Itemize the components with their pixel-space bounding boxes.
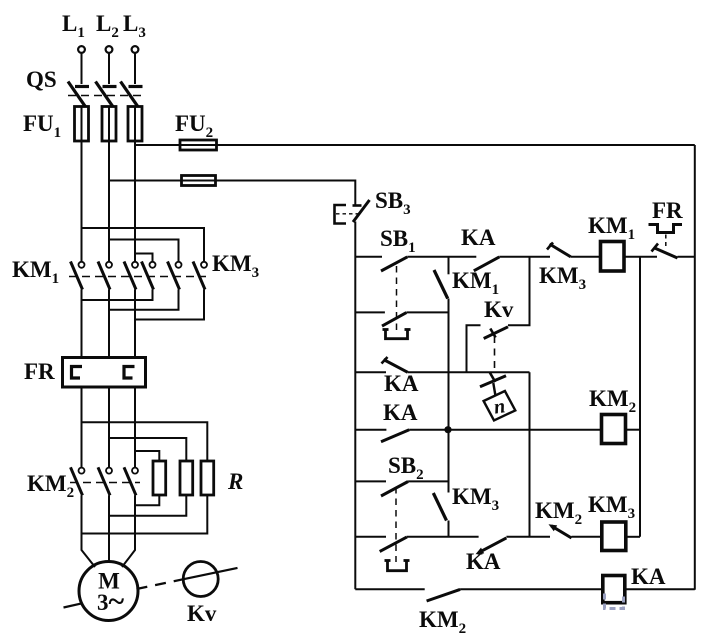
contactor KM2 contact 3 <box>124 467 138 495</box>
svg-text:KA: KA <box>383 400 418 425</box>
motor M circle <box>79 562 138 621</box>
row7 wire KM2 to KA coil <box>460 588 603 590</box>
pushbutton SB2 lower NO blade <box>380 537 407 552</box>
coil KM1 <box>601 242 625 272</box>
contactor KM1 aux NO blade vertical <box>434 270 448 299</box>
resistor R element 2 <box>180 461 193 495</box>
wire phase3 bank to FR <box>134 290 136 358</box>
contactor KM2 NC contact row6 with arrow <box>549 524 572 538</box>
resistor R element 1 <box>153 461 166 495</box>
wire KM3 contact2 bottom jumper to phase2 <box>109 290 179 310</box>
wire jumper L1 to KM3 right contact <box>82 228 205 262</box>
switch QS pole 3 <box>121 82 143 107</box>
wire KM3 contact3 bottom jumper to phase3 <box>135 290 204 320</box>
row1 wire FR to right rail <box>678 256 695 258</box>
pushbutton SB3 NC stop <box>353 200 370 222</box>
SB2 dashed link <box>395 487 397 562</box>
branch segment KM3 aux to row6 <box>448 521 450 537</box>
svg-text:Kv: Kv <box>484 297 514 322</box>
SB3 actuator dashed link <box>336 213 361 215</box>
Kv dashed link to n element <box>494 336 496 371</box>
pushbutton SB1 lower NO blade <box>382 313 406 327</box>
KM2 bank linkage dashed <box>70 482 140 484</box>
row5 wire SB2 to branch <box>408 480 448 482</box>
relay contact KA NO row4 blade <box>381 430 409 442</box>
contactor KM1 main contact 2 <box>98 262 112 290</box>
Kv right wire up to row1 <box>508 257 530 326</box>
wire R1 bottom to phase3 <box>135 495 159 505</box>
contactor KM3 NC contact row1 <box>547 243 571 257</box>
n element tilted box <box>484 391 516 420</box>
contactor KM1 main contact 3 <box>124 262 138 290</box>
svg-text:FR: FR <box>652 198 683 223</box>
wire phase2 bank to FR <box>108 290 110 358</box>
wire L2 drop to QS <box>108 53 110 84</box>
contactor KM3 aux NO blade vertical <box>433 493 446 521</box>
pushbutton SB2 NO blade <box>381 482 408 497</box>
row5 wire rail to SB2 <box>355 480 386 482</box>
wire tap phase1 to resistor R3 top <box>82 422 208 461</box>
wire phase3 fuse to KM bank <box>134 141 136 262</box>
thermal relay FR heater box <box>63 358 146 388</box>
relay contact KA NO row1 blade <box>474 257 500 271</box>
wire phase1 to motor <box>82 495 96 567</box>
scan artifact blue bracket under KA coil <box>605 594 624 609</box>
wire phase2 tap to FU2 lower <box>109 180 182 182</box>
speed relay Kv circle with shaft chord <box>183 562 237 597</box>
row1 wire rail to SB1 <box>355 256 382 258</box>
n element stem <box>493 383 495 396</box>
wire phase2 through FR down to KM2 bank <box>108 387 110 468</box>
SB1 dashed link <box>396 266 398 330</box>
wire phase1 bank to FR <box>81 290 83 358</box>
relay contact KA NO row6 blade with arrow <box>476 538 507 554</box>
wire phase1 fuse to KM bank <box>81 141 83 262</box>
Kv blade <box>484 327 508 339</box>
node L3 terminal <box>132 46 139 53</box>
row4 wire rail to KA <box>355 429 386 431</box>
row4 wire KA to KM2 coil <box>409 429 601 431</box>
coil KM2 <box>602 415 626 444</box>
svg-text:QS: QS <box>26 67 57 92</box>
SB1 button actuator U <box>383 330 411 339</box>
wire phase3 through FR down to KM2 bank <box>134 387 136 468</box>
wire jumper L2 to KM3 mid contact <box>109 240 179 262</box>
row2 wire to KM1 branch <box>406 311 448 313</box>
wire R2 bottom to phase2 <box>109 495 186 516</box>
wire phase3 to motor <box>122 495 135 567</box>
fuse FU2 upper <box>180 140 217 150</box>
svg-text:KA: KA <box>466 549 501 574</box>
junction dot row4 <box>444 426 451 433</box>
speed sensor contact blade above n <box>480 373 506 387</box>
FR heater element 2 <box>124 367 135 379</box>
SB2 button actuator U <box>385 561 410 571</box>
row3 wire KA to corner <box>408 371 530 373</box>
svg-text:KA: KA <box>631 564 666 589</box>
wire FU2 top to right rail <box>217 144 695 146</box>
KM1-KM3 bank linkage dashed <box>69 276 206 278</box>
contactor KM3 main contact 2 <box>168 262 182 290</box>
svg-text:KA: KA <box>461 225 496 250</box>
contactor KM1 main contact 1 <box>71 262 85 290</box>
QS linkage dashed <box>68 95 146 97</box>
wire phase2 fuse to KM bank <box>108 141 110 262</box>
row6 wire KM3 coil to return branch <box>626 536 640 538</box>
coil KA <box>603 576 625 603</box>
row1 wire KM1 coil to FR <box>624 256 657 258</box>
row7 wire KA coil to right rail <box>625 588 695 590</box>
left rail <box>354 222 356 590</box>
svg-text:KA: KA <box>384 371 419 396</box>
branch KM1 aux lower segment down to row6 <box>448 299 450 493</box>
wire tap phase2 to resistor R2 top <box>109 438 186 461</box>
shaft dashed coupling motor to Kv <box>137 579 184 589</box>
wire phase3 tap to FU2 top <box>135 144 180 146</box>
row1 wire SB1 to KA <box>407 256 476 258</box>
fuse FU1 pole 1 <box>75 107 89 142</box>
row3 wire rail to KA NC <box>355 371 386 373</box>
row7 wire rail to KM2 <box>355 588 424 590</box>
node L1 terminal <box>78 46 85 53</box>
wire phase1 through FR down to KM2 bank <box>81 387 83 468</box>
wire phase2 to motor <box>108 495 110 562</box>
branch KM1 aux upper segment <box>448 257 450 275</box>
wire jumper L3 to KM3 left contact <box>135 254 153 262</box>
coil KM3 <box>602 522 626 551</box>
contactor KM3 main contact 3 <box>193 262 207 290</box>
Kv blade tick <box>490 329 495 338</box>
right rail <box>694 145 696 590</box>
svg-text:R: R <box>227 469 243 494</box>
return branch vertical <box>639 257 641 537</box>
fuse FU2 lower <box>182 176 216 186</box>
row6 wire KA to KM2 <box>506 536 550 538</box>
thermal contact FR NC row1 <box>652 244 678 259</box>
fuse FU1 pole 3 <box>128 107 142 142</box>
speed relay contact Kv left L-wire <box>467 325 481 372</box>
shaft segment left of motor <box>64 604 82 608</box>
contactor KM2 contact 2 <box>98 467 112 495</box>
row6 wire rail to SB2 lower <box>355 536 386 538</box>
row4 wire KM2 coil to return branch <box>625 429 641 431</box>
FR heater element 1 <box>72 367 83 379</box>
wire KM3 contact1 bottom jumper to phase1 <box>82 290 153 301</box>
node L2 terminal <box>106 46 113 53</box>
wire R3 bottom to phase1 <box>82 495 208 534</box>
contactor KM3 main contact 1 <box>142 262 156 290</box>
FR element symbol <box>649 225 683 233</box>
wire tap phase3 to resistor R1 top <box>135 451 159 461</box>
wire FU2 lower to SB3 corner <box>216 181 356 207</box>
contactor KM2 contact 1 <box>71 467 85 495</box>
switch QS pole 1 <box>68 82 89 107</box>
pushbutton SB1 NO blade <box>381 257 407 271</box>
wire L3 drop to QS <box>134 53 136 84</box>
row6 wire KM2 to KM3 coil <box>572 536 602 538</box>
vertical row3 corner down to row6 <box>529 372 531 537</box>
SB3 button actuator <box>335 205 347 224</box>
row1 wire KA to KM3 contact <box>499 256 550 258</box>
relay contact KA NC row3 <box>382 357 408 372</box>
switch QS pole 2 <box>96 82 117 107</box>
contactor KM2 NO contact row7 blade <box>427 589 461 601</box>
svg-text:FR: FR <box>24 359 55 384</box>
svg-text:3~: 3~ <box>97 585 125 618</box>
FR dashed link <box>665 235 667 248</box>
wire L1 drop to QS <box>81 53 83 84</box>
svg-text:Kv: Kv <box>187 601 217 626</box>
fuse FU1 pole 2 <box>102 107 116 142</box>
row1 wire KM3 to KM1 coil <box>571 256 601 258</box>
resistor R element 3 <box>201 461 214 495</box>
row2 wire rail to SB1 lower <box>355 311 385 313</box>
row6 wire SB2 lower to KA <box>407 536 479 538</box>
